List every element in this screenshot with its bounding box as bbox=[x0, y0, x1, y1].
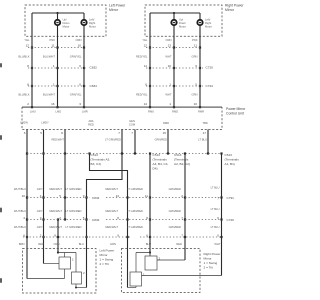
wire: YEL right mirror common, pin 12 to control unit pin 14 bbox=[136, 13, 151, 108]
svg-text:C832: C832 bbox=[90, 66, 98, 70]
color labels third row above mirror plugs bbox=[14, 225, 220, 229]
wire: LT BLU from C513 B1 to C791 pin 7 / C720 pin 6 then WHT to right mirror resistor 1 right bbox=[142, 152, 223, 275]
svg-text:Right: Right bbox=[205, 21, 212, 25]
svg-text:RED: RED bbox=[176, 242, 182, 246]
svg-text:LT GRN/RED: LT GRN/RED bbox=[127, 187, 143, 191]
svg-text:Right: Right bbox=[89, 21, 96, 25]
svg-text:GRN: GRN bbox=[110, 242, 116, 246]
wire: control unit pin 17 LT BLU down to C513 bbox=[198, 130, 209, 155]
svg-text:RED/YEL: RED/YEL bbox=[136, 55, 148, 59]
svg-text:GRN/YEL: GRN/YEL bbox=[70, 55, 82, 59]
svg-text:10: 10 bbox=[22, 194, 26, 198]
svg-text:GRY: GRY bbox=[37, 209, 43, 213]
svg-text:11: 11 bbox=[51, 43, 54, 47]
svg-text:10: 10 bbox=[78, 43, 82, 47]
svg-text:GRN: GRN bbox=[192, 55, 198, 59]
svg-text:8: 8 bbox=[61, 131, 63, 135]
svg-text:WHT: WHT bbox=[165, 55, 171, 59]
wire: right mirror internal feed to resistor tops bbox=[136, 253, 150, 273]
svg-text:2: 2 bbox=[159, 256, 161, 260]
svg-text:5: 5 bbox=[40, 131, 42, 135]
connector row: mirror connectors y47.5 bbox=[28, 47, 84, 49]
svg-text:15: 15 bbox=[163, 131, 167, 135]
svg-text:7: 7 bbox=[131, 131, 133, 135]
wire: LT GRN/RED from C513 B4 to C791 pin 11 / C720 pin 8 then BLU to right mirror resistor 2 bbox=[127, 152, 151, 256]
svg-text:WHT/BLU: WHT/BLU bbox=[14, 209, 26, 213]
svg-text:(Terminals: (Terminals bbox=[174, 157, 189, 161]
svg-text:LT GRN/RED: LT GRN/RED bbox=[127, 225, 143, 229]
svg-text:Up/: Up/ bbox=[63, 18, 67, 22]
connector row C720 upper bbox=[146, 67, 203, 69]
connector row C834 upper bbox=[28, 85, 87, 87]
wire: control unit pin 6 down through C513 to C834 pin 10, WHT/BLU bbox=[14, 130, 28, 199]
right power mirror box bbox=[145, 5, 222, 36]
svg-text:RMU: RMU bbox=[148, 110, 154, 114]
svg-text:GRY: GRY bbox=[37, 225, 43, 229]
svg-text:RED: RED bbox=[38, 242, 44, 246]
svg-text:LT BLU: LT BLU bbox=[211, 225, 220, 229]
wire: left mirror internal feed to resistor tops bbox=[58, 253, 76, 273]
svg-text:12: 12 bbox=[26, 43, 30, 47]
connector row C832 upper bbox=[28, 67, 87, 69]
svg-text:10: 10 bbox=[168, 64, 172, 68]
svg-text:(Terminals: (Terminals bbox=[225, 157, 240, 161]
svg-text:2: 2 bbox=[83, 271, 85, 275]
power mirror control unit U1 bbox=[22, 107, 222, 108]
svg-text:PNK: PNK bbox=[192, 38, 198, 42]
svg-text:LT GRN/RED: LT GRN/RED bbox=[65, 225, 81, 229]
svg-text:Down: Down bbox=[63, 21, 70, 25]
svg-text:Motor: Motor bbox=[205, 24, 212, 28]
svg-text:GEN: GEN bbox=[129, 119, 135, 123]
wire: RED/WHT from C513 to C834 pin 5 / C832 pin 2 bbox=[49, 154, 66, 221]
svg-text:12: 12 bbox=[144, 43, 148, 47]
svg-text:C832: C832 bbox=[92, 218, 100, 222]
wire: up/down motor top lead bbox=[57, 13, 59, 19]
svg-text:11: 11 bbox=[194, 43, 197, 47]
svg-text:A2, B2, C2): A2, B2, C2) bbox=[174, 162, 190, 166]
wire: ORN from C832 down into left mirror, feeds resistor tops bbox=[54, 218, 60, 253]
svg-text:2 = Tilt: 2 = Tilt bbox=[100, 262, 109, 266]
svg-text:TBD: TBD bbox=[202, 121, 207, 125]
svg-text:8: 8 bbox=[117, 216, 119, 220]
svg-text:LT BLU: LT BLU bbox=[211, 185, 220, 189]
svg-text:Up/: Up/ bbox=[179, 18, 183, 22]
wire: right up/down motor top lead bbox=[173, 13, 175, 19]
svg-text:16: 16 bbox=[51, 102, 55, 106]
svg-text:Motor: Motor bbox=[179, 24, 186, 28]
svg-text:GRN/YEL: GRN/YEL bbox=[70, 93, 82, 97]
svg-text:Right Power: Right Power bbox=[204, 252, 221, 256]
svg-text:BLU: BLU bbox=[79, 242, 84, 246]
wire: right resistor 1 bottom drop bbox=[135, 286, 137, 288]
svg-text:Mirror: Mirror bbox=[109, 8, 119, 12]
svg-text:3: 3 bbox=[79, 102, 81, 106]
svg-text:GRN/RED: GRN/RED bbox=[155, 138, 167, 142]
svg-text:LMD: LMD bbox=[56, 110, 62, 114]
svg-text:RMD: RMD bbox=[172, 110, 178, 114]
wire: left/right motor top lead bbox=[83, 13, 85, 19]
svg-text:LT GRN/RED: LT GRN/RED bbox=[65, 209, 81, 213]
svg-text:Motor: Motor bbox=[89, 24, 96, 28]
svg-text:C834: C834 bbox=[92, 196, 100, 200]
svg-text:GRN/RED: GRN/RED bbox=[169, 187, 181, 191]
svg-text:ORN: ORN bbox=[54, 242, 60, 246]
svg-text:6: 6 bbox=[24, 131, 26, 135]
svg-text:B3, C3): B3, C3) bbox=[91, 162, 102, 166]
svg-text:1: 1 bbox=[72, 257, 74, 261]
svg-text:BLU/BLK: BLU/BLK bbox=[18, 55, 29, 59]
svg-text:BLU/WHT: BLU/WHT bbox=[43, 55, 55, 59]
svg-text:C720: C720 bbox=[206, 66, 214, 70]
svg-text:7: 7 bbox=[118, 131, 120, 135]
svg-text:Left/: Left/ bbox=[89, 18, 94, 22]
svg-text:14: 14 bbox=[144, 102, 148, 106]
wire: control unit pin 7 right half down to C513 terminal A4 bbox=[131, 130, 136, 155]
svg-text:C834: C834 bbox=[90, 84, 98, 88]
svg-text:C513: C513 bbox=[91, 153, 99, 157]
motor M2 left left/right motor bbox=[81, 20, 86, 25]
svg-text:C724: C724 bbox=[206, 84, 214, 88]
svg-text:9: 9 bbox=[195, 64, 197, 68]
svg-text:GRN: GRN bbox=[192, 93, 198, 97]
svg-text:1: 1 bbox=[169, 102, 171, 106]
svg-text:D4): D4) bbox=[153, 166, 158, 170]
svg-text:LT BLU: LT BLU bbox=[211, 207, 220, 211]
svg-text:8: 8 bbox=[27, 64, 29, 68]
wire: control unit pin 8 RED/WHT down to C513 bbox=[51, 130, 66, 155]
svg-text:17: 17 bbox=[203, 131, 207, 135]
wire: GRY from C834 to C832 pin 3 then RED to left mirror resistor 1 left bbox=[37, 198, 59, 264]
svg-text:1 = Swing: 1 = Swing bbox=[100, 257, 114, 261]
svg-text:LT BLU: LT BLU bbox=[198, 138, 207, 142]
svg-text:WHT/BLU: WHT/BLU bbox=[14, 225, 26, 229]
svg-text:C791: C791 bbox=[227, 196, 235, 200]
svg-text:WHT: WHT bbox=[165, 93, 171, 97]
svg-text:(Terminals A3,: (Terminals A3, bbox=[91, 157, 111, 161]
svg-text:RMR: RMR bbox=[198, 110, 204, 114]
connector C513 dashed row bbox=[27, 153, 222, 155]
svg-text:2 = Tilt: 2 = Tilt bbox=[204, 265, 213, 269]
svg-text:13: 13 bbox=[168, 43, 172, 47]
wire: left mirror common bus bbox=[32, 12, 84, 14]
wire: control unit pin 7 LT GRN/RED down through C513, elbow left to C834 pin 9 bbox=[87, 130, 124, 198]
left power mirror box bbox=[25, 5, 106, 36]
resistor 1 left mirror swing bbox=[59, 257, 71, 269]
svg-text:GRY: GRY bbox=[37, 187, 43, 191]
svg-text:RED/WHT: RED/WHT bbox=[49, 187, 62, 191]
wire: PNK left up/down motor, pin 11 to control unit pin 16 bbox=[43, 26, 59, 109]
svg-text:LMU: LMU bbox=[30, 110, 36, 114]
svg-text:LMDN: LMDN bbox=[20, 120, 28, 124]
motor M4 right left/right motor bbox=[197, 20, 202, 25]
svg-text:GRN/RED: GRN/RED bbox=[169, 209, 181, 213]
connector row C834 lower bbox=[27, 197, 90, 199]
svg-text:LMDY: LMDY bbox=[41, 120, 49, 124]
svg-text:6: 6 bbox=[217, 234, 219, 238]
svg-text:4: 4 bbox=[23, 216, 25, 220]
svg-text:8: 8 bbox=[54, 234, 56, 238]
svg-text:RED: RED bbox=[88, 123, 94, 127]
wire: control unit pin 15 GRN/RED down to C513 bbox=[155, 130, 170, 155]
svg-text:(Terminals: (Terminals bbox=[153, 157, 168, 161]
connector row mirror plugs y237 bbox=[23, 236, 130, 238]
svg-text:C513: C513 bbox=[225, 153, 233, 157]
svg-text:Mirror: Mirror bbox=[225, 8, 235, 12]
svg-text:LT GRN/RED: LT GRN/RED bbox=[127, 209, 143, 213]
svg-text:1: 1 bbox=[53, 64, 55, 68]
wire: LT GRN/RED from C834 pin 9 to C832 pin 5 then BLU to left mirror resistor 2 bottom bbox=[65, 187, 87, 287]
wire: control unit pin 5 down through C513 to C834 pin 4, GRY bbox=[37, 130, 45, 199]
svg-text:RED/WHT: RED/WHT bbox=[105, 187, 118, 191]
connector row C832 lower bbox=[27, 219, 90, 221]
svg-text:Control Unit: Control Unit bbox=[226, 112, 244, 116]
wire: resistor 2 bottom drop bbox=[75, 284, 77, 288]
svg-text:RMD: RMD bbox=[163, 121, 169, 125]
svg-text:A1, B1): A1, B1) bbox=[225, 162, 235, 166]
svg-text:10: 10 bbox=[194, 102, 198, 106]
svg-text:COM: COM bbox=[129, 123, 136, 127]
wire: GRN/RED from C513 B2 to C791 pin 2 / C720 pin 7 then RED to right mirror resistor 2 right bbox=[157, 152, 186, 260]
svg-text:Mirror: Mirror bbox=[204, 256, 212, 260]
svg-text:11: 11 bbox=[144, 64, 147, 68]
svg-text:PNK: PNK bbox=[49, 38, 55, 42]
svg-text:1: 1 bbox=[143, 272, 145, 276]
svg-text:C513: C513 bbox=[174, 153, 182, 157]
svg-text:2: 2 bbox=[27, 102, 29, 106]
svg-text:C513: C513 bbox=[153, 153, 161, 157]
svg-text:Mirror: Mirror bbox=[100, 253, 108, 257]
svg-text:Left Power: Left Power bbox=[100, 248, 115, 252]
motor M3 right up/down motor bbox=[171, 20, 176, 25]
svg-text:LT GRN/RED: LT GRN/RED bbox=[105, 138, 121, 142]
motor M1 left up/down motor bbox=[55, 20, 60, 25]
svg-text:RED/WHT: RED/WHT bbox=[49, 209, 62, 213]
svg-text:Power Mirror: Power Mirror bbox=[226, 107, 246, 111]
svg-text:YEL: YEL bbox=[24, 38, 30, 42]
left power mirror actuator box bbox=[23, 249, 97, 294]
svg-text:LT GRN/RED: LT GRN/RED bbox=[65, 187, 81, 191]
svg-text:C720: C720 bbox=[227, 218, 235, 222]
svg-text:WHT: WHT bbox=[214, 242, 220, 246]
resistor 2 left mirror tilt bbox=[72, 272, 82, 284]
svg-text:Left/: Left/ bbox=[205, 18, 210, 22]
svg-text:LMR: LMR bbox=[82, 110, 88, 114]
wire: PNK right left/right motor, pin 11 to control unit pin 10 bbox=[192, 26, 202, 109]
svg-text:RED/WHT: RED/WHT bbox=[51, 138, 64, 142]
svg-text:GRN/RED: GRN/RED bbox=[169, 225, 181, 229]
connector row C724 upper bbox=[146, 85, 203, 87]
svg-text:1 = Swing: 1 = Swing bbox=[204, 261, 218, 265]
scan artifact marks on left edge bbox=[0, 63, 2, 68]
svg-text:ORN: ORN bbox=[166, 38, 172, 42]
right power mirror actuator box bbox=[122, 249, 201, 293]
svg-text:Motor: Motor bbox=[63, 24, 70, 28]
svg-text:A8A: A8A bbox=[88, 119, 93, 123]
wire: ORN left left/right motor, pin 10 to control unit pin 3 bbox=[70, 26, 85, 109]
svg-text:RED/YEL: RED/YEL bbox=[136, 93, 148, 97]
svg-text:BLU/WHT: BLU/WHT bbox=[43, 93, 55, 97]
node: right mirror bus tap to up/down motor bbox=[173, 12, 175, 14]
svg-text:BLU: BLU bbox=[146, 242, 151, 246]
svg-text:BLU/BLK: BLU/BLK bbox=[18, 93, 29, 97]
wire: right left/right motor top lead bbox=[199, 13, 201, 19]
wire: ORN right up/down motor, pin 13 to control unit pin 1 bbox=[165, 26, 175, 109]
svg-text:BRN: BRN bbox=[19, 242, 25, 246]
svg-text:WHT/BLU: WHT/BLU bbox=[14, 187, 26, 191]
svg-text:RED/WHT: RED/WHT bbox=[105, 225, 118, 229]
svg-text:RED/WHT: RED/WHT bbox=[105, 209, 118, 213]
node: left mirror bus tap to up/down motor bbox=[56, 12, 58, 14]
resistor 2 right mirror tilt bbox=[145, 256, 157, 270]
svg-text:Down: Down bbox=[179, 21, 186, 25]
wire: C513 exit elbow right, RED/WHT down to C834 pin 13 / C832 pin 8 then GRN into right mirror bbox=[88, 152, 136, 287]
svg-text:YEL: YEL bbox=[142, 38, 148, 42]
wire: WHT/BLU from C834 pin 4 to C832 then BRN into left mirror bbox=[14, 198, 65, 279]
wire: resistor 1 bottom drop bbox=[64, 269, 66, 279]
svg-text:A4, B4, C4,: A4, B4, C4, bbox=[153, 162, 169, 166]
wire: right mirror common bus bbox=[150, 12, 200, 14]
wire: YEL left mirror common, pin 12 to control unit pin 2 bbox=[18, 13, 33, 108]
svg-text:RED/WHT: RED/WHT bbox=[49, 225, 62, 229]
resistor 1 right mirror swing bbox=[130, 272, 142, 286]
svg-text:6: 6 bbox=[79, 64, 81, 68]
svg-text:ORN: ORN bbox=[76, 38, 82, 42]
